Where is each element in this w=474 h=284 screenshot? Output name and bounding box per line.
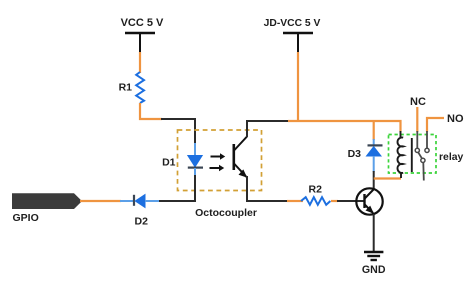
power symbol VCC 5 V xyxy=(121,17,164,53)
wire R1 to optocoupler LED (orange part) xyxy=(140,103,162,119)
svg-text:JD-VCC 5 V: JD-VCC 5 V xyxy=(264,18,321,29)
wire NC lead (orange) xyxy=(416,107,418,132)
diode D2 xyxy=(120,195,160,228)
svg-text:Octocoupler: Octocoupler xyxy=(195,207,257,219)
optocoupler light arrows xyxy=(210,153,226,171)
relay dashed box xyxy=(389,135,437,174)
svg-text:GND: GND xyxy=(362,264,386,276)
svg-text:R1: R1 xyxy=(119,82,133,94)
wire top bus to relay coil (orange) xyxy=(288,121,401,132)
wire collector node to relay coil bottom (orange) xyxy=(374,177,401,179)
power symbol JD-VCC 5 V xyxy=(264,18,321,53)
wire LED cathode lead (black) xyxy=(194,175,196,201)
LED D1 xyxy=(162,143,203,176)
resistor R1 xyxy=(119,72,144,103)
svg-text:R2: R2 xyxy=(309,184,323,196)
wire NO lead (orange) xyxy=(427,118,444,132)
ground symbol GND xyxy=(362,252,386,276)
relay NO contact xyxy=(425,131,429,152)
svg-text:D1: D1 xyxy=(162,157,176,169)
relay core line xyxy=(411,138,413,172)
svg-text:NC: NC xyxy=(410,96,426,108)
resistor R2 xyxy=(301,184,330,205)
relay armature and common pole xyxy=(418,152,425,180)
terminal tag GPIO xyxy=(12,193,82,224)
wire R2 to transistor base (orange then black) xyxy=(331,200,338,202)
svg-text:VCC 5 V: VCC 5 V xyxy=(121,17,164,29)
wire phototransistor collector (black) xyxy=(247,121,289,137)
transistor Q1 xyxy=(356,188,382,214)
optocoupler dashed box xyxy=(178,130,262,191)
wire JD-VCC down to top bus xyxy=(297,52,299,121)
wire D3 anode to transistor collector (black) xyxy=(373,171,375,189)
wire GPIO to D2 (orange) xyxy=(80,200,121,202)
relay coil xyxy=(397,131,403,178)
optocoupler phototransistor xyxy=(234,137,247,178)
wire D2 to LED cathode node (black) xyxy=(159,200,196,202)
wire phototransistor emitter (black) xyxy=(247,176,288,201)
svg-text:GPIO: GPIO xyxy=(13,212,39,224)
svg-text:relay: relay xyxy=(439,152,463,163)
svg-text:D2: D2 xyxy=(135,216,149,228)
relay NC contact xyxy=(415,131,419,152)
wire optocoupler anode lead (black part) xyxy=(161,119,195,144)
diode D3 xyxy=(348,139,383,172)
wire emitter node to R2 (orange) xyxy=(287,200,303,202)
svg-text:D3: D3 xyxy=(348,148,362,160)
wire transistor emitter to ground xyxy=(373,214,375,252)
wire VCC to R1 xyxy=(139,52,141,73)
wire D3 branch (orange) xyxy=(373,121,375,140)
svg-text:NO: NO xyxy=(447,113,464,125)
